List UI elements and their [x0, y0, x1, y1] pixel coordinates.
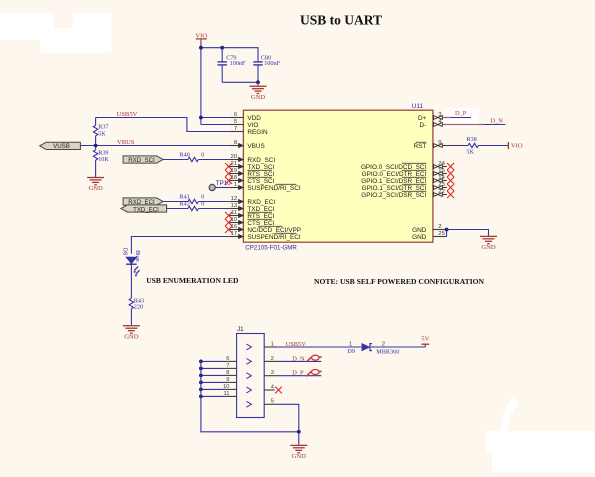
- J1 pin 4 stub: [264, 389, 275, 391]
- svg-text:D_N: D_N: [491, 117, 504, 124]
- diode D9 MBR360: [362, 344, 370, 351]
- port TXD_ECI: [121, 205, 167, 212]
- svg-text:GND: GND: [251, 94, 266, 101]
- svg-text:GND: GND: [412, 227, 427, 234]
- svg-text:GPIO.0_ECI/DTR_ECI: GPIO.0_ECI/DTR_ECI: [362, 171, 427, 178]
- svg-text:GND: GND: [124, 333, 139, 340]
- svg-text:GND: GND: [412, 234, 427, 241]
- wire VBUS: [80, 145, 229, 147]
- no-connect X GPIO row 9: [447, 177, 454, 184]
- wire J1 pin 8 to shield bus: [201, 374, 226, 376]
- node VDD/VIO junction: [199, 116, 203, 120]
- svg-text:7: 7: [234, 126, 237, 132]
- node J1 ground: [297, 430, 301, 434]
- svg-text:SUSPEND/RI_SCI: SUSPEND/RI_SCI: [247, 185, 300, 192]
- wire VIO vertical: [200, 43, 202, 125]
- no-connect X left row 8: [225, 170, 232, 177]
- svg-text:R41: R41: [180, 193, 190, 200]
- svg-text:GND: GND: [481, 244, 496, 251]
- svg-text:D_N: D_N: [292, 355, 305, 362]
- svg-text:NC/DCD_ECI/VPP: NC/DCD_ECI/VPP: [247, 227, 301, 234]
- svg-text:0: 0: [201, 193, 204, 200]
- svg-text:NOTE: USB SELF POWERED CONFIGU: NOTE: USB SELF POWERED CONFIGURATION: [314, 277, 485, 286]
- wire R42 to pin 13: [198, 208, 229, 210]
- wire to VIO pin: [201, 124, 229, 126]
- pin 1 SUSPEND/RI_SCI: [229, 187, 243, 189]
- pin 8 VBUS: [229, 145, 243, 147]
- no-connect X J1 pin 4: [275, 387, 282, 394]
- svg-text:Blue: Blue: [134, 250, 140, 262]
- J1 pin 10 stub: [226, 388, 237, 390]
- J1 pin 7 stub: [226, 367, 237, 369]
- wire RXD_SCI to R40: [163, 159, 188, 161]
- node shield bus 7: [199, 367, 203, 371]
- svg-text:100nF: 100nF: [230, 60, 246, 67]
- svg-text:22: 22: [438, 189, 445, 195]
- net D_P wire: [443, 117, 452, 119]
- J1 pin 5 chevron: [246, 401, 251, 407]
- wire R37 to VBUS: [95, 136, 97, 146]
- svg-text:CTS_SCI: CTS_SCI: [247, 178, 274, 185]
- pin 23 GPIO.1_SCI/DTR_SCI: [433, 187, 447, 189]
- pin 17 SUSPEND/RI_ECI: [229, 236, 243, 238]
- svg-text:SUSPEND/RI_ECI: SUSPEND/RI_ECI: [247, 234, 300, 241]
- wire to VDD pin: [201, 117, 229, 119]
- resistor R42 body: [188, 206, 198, 210]
- resistor R41 body: [188, 199, 198, 203]
- J1 pin 3 chevron: [246, 373, 251, 379]
- svg-text:8: 8: [226, 370, 229, 376]
- svg-text:2: 2: [271, 356, 274, 362]
- node shield bus 8: [199, 374, 203, 378]
- J1 pin 9 stub: [226, 381, 237, 383]
- svg-text:14: 14: [438, 175, 445, 181]
- power port VIO (RST pullup): [507, 142, 509, 149]
- wire J1 pin3 D_P: [277, 375, 321, 377]
- wire J1 pin2 D_N: [277, 360, 321, 362]
- J1 pin 8 stub: [226, 374, 237, 376]
- svg-text:R38: R38: [466, 136, 476, 143]
- wire TXD_ECI to R42: [167, 208, 188, 210]
- svg-text:VUSB: VUSB: [53, 143, 70, 150]
- svg-text:VBUS: VBUS: [247, 143, 264, 150]
- svg-text:CTS_ECI: CTS_ECI: [247, 220, 274, 227]
- svg-text:J1: J1: [237, 326, 244, 333]
- svg-text:4: 4: [271, 384, 274, 390]
- svg-text:TXD_ECI: TXD_ECI: [133, 206, 159, 213]
- port RXD_ECI: [123, 198, 163, 205]
- J1 pin 1 stub: [264, 346, 277, 348]
- wire USB5V to REGIN: [96, 118, 230, 132]
- pin 24 GPIO.0_SCI/DCD_SCI: [433, 166, 447, 168]
- svg-text:RTS_ECI: RTS_ECI: [247, 213, 274, 220]
- svg-text:RST: RST: [414, 143, 427, 150]
- wire to IC ground: [447, 230, 489, 236]
- svg-text:1: 1: [349, 341, 352, 347]
- pin 14 GPIO.1_ECI/DSR_ECI: [433, 180, 447, 182]
- svg-text:CP2105-F01-GMR: CP2105-F01-GMR: [245, 244, 297, 251]
- no-connect X GPIO row 11: [447, 191, 454, 198]
- svg-text:9: 9: [438, 140, 441, 146]
- wire joining GND pins: [446, 230, 448, 237]
- wire shield bus: [201, 361, 299, 431]
- wire SUSPEND/RI_ECI to LED: [131, 237, 229, 254]
- resistor R38 body: [468, 143, 478, 147]
- svg-text:GND: GND: [88, 185, 103, 192]
- diff pair marker D_N: [306, 357, 311, 362]
- svg-text:5K: 5K: [466, 149, 474, 156]
- svg-text:GND: GND: [292, 453, 307, 460]
- pin 5 VIO: [229, 124, 243, 126]
- capacitor C79: [221, 48, 223, 62]
- svg-text:11: 11: [231, 210, 237, 216]
- svg-text:D9: D9: [347, 348, 355, 355]
- node VIO rail left: [199, 46, 203, 50]
- svg-text:TXD_ECI: TXD_ECI: [247, 206, 274, 213]
- pin 21 TXD_SCI: [229, 166, 243, 168]
- wire J1 pin1 to D9: [277, 346, 361, 348]
- pin 4 D-: [433, 124, 447, 126]
- resistor R37: [95, 118, 97, 126]
- wire J1 pin 10 to shield bus: [201, 388, 226, 390]
- J1 pin 11 stub: [226, 395, 237, 397]
- pin 2 GND: [433, 229, 447, 231]
- wire J1 pin 7 to shield bus: [201, 367, 226, 369]
- svg-text:0: 0: [201, 151, 204, 158]
- svg-text:23: 23: [438, 182, 445, 188]
- svg-text:D_P: D_P: [292, 370, 304, 377]
- no-connect X GPIO row 7: [447, 163, 454, 170]
- svg-text:220: 220: [134, 304, 143, 311]
- svg-text:VDD: VDD: [247, 115, 261, 122]
- power port 5V: [424, 344, 426, 347]
- svg-text:GPIO.2_SCI/DSR_SCI: GPIO.2_SCI/DSR_SCI: [361, 192, 426, 199]
- pin 13 TXD_ECI: [229, 208, 243, 210]
- svg-text:TXD_SCI: TXD_SCI: [247, 164, 274, 171]
- ground (decoupling caps): [257, 82, 259, 86]
- ground (LED): [130, 325, 132, 326]
- wire R43 to ground: [130, 309, 132, 325]
- wire R40 to pin 20: [198, 159, 229, 161]
- resistor R43 body: [129, 298, 133, 308]
- no-connect X left row 14: [225, 212, 232, 219]
- svg-text:15: 15: [438, 168, 445, 174]
- pin 11 RTS_ECI: [229, 215, 243, 217]
- node shield bus 9: [199, 381, 203, 385]
- svg-text:VIO: VIO: [247, 122, 258, 129]
- wire J1 pin 11 to shield bus: [201, 395, 226, 397]
- net D_N wire: [443, 124, 484, 126]
- svg-text:R42: R42: [180, 200, 190, 207]
- svg-text:0: 0: [201, 200, 204, 207]
- pin 3 D+: [433, 117, 447, 119]
- pin 18 CTS_SCI: [229, 180, 243, 182]
- svg-text:20: 20: [231, 154, 238, 160]
- pin 9 RST: [433, 145, 447, 147]
- wire VBUS to R39: [95, 146, 97, 150]
- J1 pin 1 chevron: [246, 344, 251, 350]
- no-connect X left row 15: [225, 219, 232, 226]
- J1 pin 2 stub: [264, 360, 277, 362]
- pin 25 GND: [433, 236, 447, 238]
- svg-text:9: 9: [226, 377, 229, 383]
- connector J1 body: [237, 334, 265, 418]
- wire cap top rail: [201, 48, 258, 62]
- svg-text:GPIO.1_ECI/DSR_ECI: GPIO.1_ECI/DSR_ECI: [361, 178, 426, 185]
- svg-text:5K: 5K: [98, 130, 106, 137]
- svg-text:D8: D8: [122, 248, 128, 255]
- wire cap bottom rail: [222, 81, 258, 83]
- svg-text:25: 25: [438, 231, 445, 237]
- ground (J1): [298, 444, 300, 445]
- svg-text:USB5V: USB5V: [286, 341, 307, 348]
- svg-text:GPIO.0_SCI/DCD_SCI: GPIO.0_SCI/DCD_SCI: [361, 164, 427, 171]
- svg-text:R40: R40: [180, 151, 190, 158]
- ground (IC GND pins): [488, 235, 490, 238]
- wire ground stem: [298, 432, 300, 444]
- wire J1 pin 9 to shield bus: [201, 381, 226, 383]
- pin 7 REGIN: [229, 131, 243, 133]
- svg-text:VBUS: VBUS: [117, 139, 135, 146]
- pin 10 CTS_ECI: [229, 222, 243, 224]
- resistor R39 body: [93, 150, 97, 160]
- svg-text:MBR360: MBR360: [376, 348, 399, 355]
- node GND pins: [445, 228, 449, 232]
- J1 pin 5 stub: [264, 403, 277, 405]
- pin 20 RXD_SCI: [229, 159, 243, 161]
- pin 22 GPIO.2_SCI/DSR_SCI: [433, 194, 447, 196]
- no-connect X left row 16: [225, 226, 232, 233]
- svg-text:USB ENUMERATION LED: USB ENUMERATION LED: [146, 276, 239, 285]
- capacitor C80: [257, 61, 259, 63]
- J1 pin 3 stub: [264, 375, 277, 377]
- svg-text:RXD_SCI: RXD_SCI: [247, 157, 275, 164]
- svg-text:U11: U11: [412, 103, 424, 110]
- J1 pin 6 stub: [226, 360, 237, 362]
- test point TP10: [209, 184, 215, 190]
- pin 19 RTS_SCI: [229, 173, 243, 175]
- svg-text:D+: D+: [418, 115, 427, 122]
- node shield bus 6: [199, 360, 203, 364]
- svg-text:5V: 5V: [421, 335, 429, 342]
- svg-text:VIO: VIO: [511, 143, 523, 150]
- wire R41 to pin 12: [198, 201, 229, 203]
- pin 16 NC/DCD_ECI/VPP: [229, 229, 243, 231]
- svg-text:12: 12: [231, 196, 238, 202]
- IC U11 CP2105 body: [243, 110, 433, 242]
- wire R38 to VIO: [478, 145, 508, 147]
- svg-text:10K: 10K: [98, 156, 109, 163]
- no-connect X GPIO row 8: [447, 170, 454, 177]
- svg-text:RXD_SCI: RXD_SCI: [128, 157, 155, 164]
- node C79 tap: [220, 46, 224, 50]
- svg-text:6: 6: [226, 356, 229, 362]
- port RXD_SCI: [123, 156, 163, 163]
- svg-text:100nF: 100nF: [264, 60, 280, 67]
- svg-text:3: 3: [271, 370, 274, 376]
- svg-text:1: 1: [271, 341, 274, 347]
- svg-text:1: 1: [234, 182, 237, 188]
- port VUSB: [40, 142, 81, 149]
- J1 pin 2 chevron: [246, 359, 251, 365]
- svg-text:RTS_SCI: RTS_SCI: [247, 171, 274, 178]
- node cap gnd: [256, 80, 260, 84]
- wire R39 to ground: [95, 160, 97, 176]
- node shield bus 11: [199, 395, 203, 399]
- svg-text:5: 5: [271, 399, 274, 405]
- no-connect X left row 7: [225, 163, 232, 170]
- wire J1 pin 6 to shield bus: [201, 360, 226, 362]
- svg-text:GPIO.1_SCI/DTR_SCI: GPIO.1_SCI/DTR_SCI: [362, 185, 427, 192]
- svg-text:D-: D-: [420, 122, 427, 129]
- node VBUS junction: [94, 144, 98, 148]
- resistor R40 body: [188, 157, 198, 161]
- pin 6 VDD: [229, 117, 243, 119]
- svg-text:USB to UART: USB to UART: [300, 13, 382, 28]
- ground (R39): [95, 177, 97, 178]
- no-connect X GPIO row 10: [447, 184, 454, 191]
- svg-text:7: 7: [226, 363, 229, 369]
- wire RXD_ECI to R41: [163, 201, 188, 203]
- pin 15 GPIO.0_ECI/DTR_ECI: [433, 173, 447, 175]
- svg-text:REGIN: REGIN: [247, 129, 268, 136]
- wire TP10 to pin 1: [215, 187, 229, 189]
- svg-text:13: 13: [231, 203, 238, 209]
- wire D9 to 5V: [371, 346, 426, 348]
- svg-text:D_P: D_P: [455, 110, 467, 117]
- svg-text:24: 24: [438, 161, 445, 167]
- node shield bus 10: [199, 388, 203, 392]
- wire LED to R43: [130, 264, 132, 298]
- no-connect X left row 9: [225, 177, 232, 184]
- resistor R37 body: [93, 125, 97, 135]
- svg-text:2: 2: [438, 224, 441, 230]
- J1 pin 4 chevron: [246, 387, 251, 393]
- svg-text:RXD_ECI: RXD_ECI: [247, 199, 275, 206]
- wire RST to R38: [447, 145, 468, 147]
- diff pair marker D_P: [306, 371, 311, 376]
- wire J1 pin5 to ground rail: [277, 404, 299, 432]
- pin 12 RXD_ECI: [229, 201, 243, 203]
